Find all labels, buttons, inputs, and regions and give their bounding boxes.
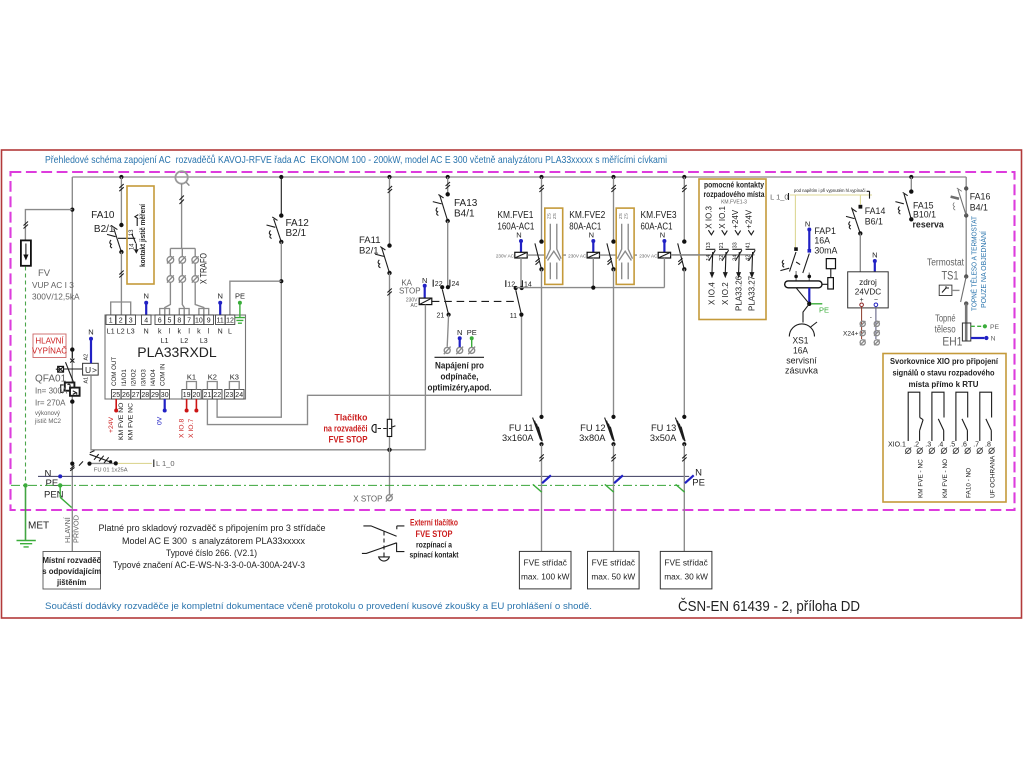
svg-text:PE: PE [46, 478, 59, 489]
svg-text:Typové značení AC-E-WS-N-3-3-0: Typové značení AC-E-WS-N-3-3-0-0A-300A-2… [113, 560, 305, 571]
svg-text:Přehledové schéma zapojení AC: Přehledové schéma zapojení AC rozvaděčů … [45, 154, 667, 166]
CT column L3 [195, 248, 204, 315]
svg-text:33: 33 [732, 242, 738, 248]
svg-text:1: 1 [109, 318, 113, 325]
svg-text:B2/1: B2/1 [94, 224, 115, 235]
svg-text:25: 25 [112, 392, 120, 399]
svg-text:Místní rozvaděč: Místní rozvaděč [42, 556, 101, 565]
breaker FA15 [895, 175, 944, 230]
svg-text:X IO.2: X IO.2 [721, 282, 730, 305]
svg-text:4: 4 [144, 318, 148, 325]
svg-text:COM IN: COM IN [160, 364, 167, 386]
svg-text:N: N [805, 220, 810, 229]
contactor KM.FVE1 [496, 175, 587, 417]
svg-text:X IO.4: X IO.4 [708, 282, 717, 305]
aux contact column X IO.4 [705, 205, 717, 305]
svg-text:42: 42 [746, 255, 752, 261]
svg-text:ZS: ZS [624, 213, 629, 219]
svg-text:14: 14 [129, 243, 135, 250]
svg-text:0V: 0V [157, 416, 164, 425]
svg-text:I2/IO2: I2/IO2 [131, 369, 138, 386]
svg-text:.4: .4 [937, 442, 943, 449]
svg-text:6: 6 [158, 318, 162, 325]
svg-text:XIO.1: XIO.1 [888, 442, 906, 449]
svg-text:výkonový: výkonový [35, 411, 60, 417]
svg-text:.6: .6 [961, 442, 967, 449]
wire button to X STOP terminal [389, 437, 391, 495]
svg-text:FA13: FA13 [454, 198, 478, 209]
svg-text:FA10: FA10 [91, 210, 115, 221]
svg-text:21: 21 [204, 392, 212, 399]
plug ZS box 1 [545, 208, 563, 284]
svg-text:A2: A2 [84, 354, 90, 361]
svg-text:I3/IO3: I3/IO3 [140, 369, 147, 386]
svg-text:Model AC E 300 s analyzátorem: Model AC E 300 s analyzátorem PLA33xxxxx [122, 536, 305, 547]
svg-text:PE: PE [819, 306, 829, 315]
svg-text:HLAVNÍ: HLAVNÍ [35, 337, 64, 346]
svg-text:.7: .7 [973, 442, 979, 449]
svg-text:KM.FVE2: KM.FVE2 [569, 210, 605, 221]
fuse FU13 [650, 415, 694, 552]
svg-text:K3: K3 [230, 373, 239, 382]
svg-text:VUP AC I 3: VUP AC I 3 [32, 280, 74, 290]
svg-text:230V AC: 230V AC [568, 253, 587, 258]
outer drawing frame [2, 150, 1022, 618]
svg-text:N: N [144, 329, 149, 336]
bracket K3 [229, 382, 239, 390]
svg-text:7: 7 [187, 318, 191, 325]
wire KA coil down [424, 305, 426, 450]
svg-text:s odpovídajícím: s odpovídajícím [42, 567, 101, 576]
svg-text:Topné: Topné [935, 314, 956, 325]
wire FA12 to PLA T12 [230, 281, 281, 315]
svg-text:27: 27 [132, 392, 140, 399]
svg-text:10: 10 [195, 318, 203, 325]
svg-text:2: 2 [119, 318, 123, 325]
svg-text:U: U [85, 365, 91, 375]
svg-text:k: k [158, 329, 162, 336]
node FVE stop junction [387, 448, 391, 452]
wire +24V out [115, 399, 117, 409]
XIO contact pair 1 [908, 392, 923, 441]
svg-text:24: 24 [452, 281, 460, 288]
XIO terminal circles [905, 447, 994, 453]
contactor KM.FVE3 [637, 175, 706, 417]
wire X IO.7 [195, 399, 197, 409]
svg-text:PŘÍVOD: PŘÍVOD [72, 515, 81, 543]
svg-text:N: N [88, 328, 93, 337]
svg-text:KM FVE NC: KM FVE NC [128, 403, 135, 440]
svg-text:41: 41 [746, 242, 752, 248]
svg-text:-: - [870, 314, 872, 321]
box mistni rozvadec [43, 552, 101, 590]
svg-text:Tlačítko: Tlačítko [335, 413, 368, 423]
svg-text:28: 28 [141, 392, 149, 399]
svg-text:servisní: servisní [786, 356, 817, 366]
plug ZS box 2 [616, 208, 634, 284]
svg-text:Externí tlačítko: Externí tlačítko [410, 518, 458, 528]
XIO terminal labels [888, 442, 991, 449]
svg-text:60A-AC1: 60A-AC1 [641, 222, 673, 233]
svg-text:.2: .2 [913, 442, 919, 449]
node FV branch [70, 208, 74, 212]
CT column L1 [165, 248, 171, 315]
svg-text:12: 12 [226, 318, 234, 325]
wire FA10 to PLA T2 [120, 252, 122, 315]
wire PLA T21 to KM aux [207, 314, 521, 424]
svg-text:11: 11 [217, 318, 224, 325]
svg-text:8: 8 [177, 318, 181, 325]
wire FV branch [25, 210, 72, 241]
wire KA 21 to odpinace terminal [447, 315, 448, 347]
breaker FA12 [279, 175, 283, 179]
wire trafo drop [181, 184, 183, 249]
svg-text:In= 300A: In= 300A [35, 387, 68, 396]
fuse FU12 [579, 415, 623, 552]
svg-text:20: 20 [193, 392, 201, 399]
svg-text:odpínače,: odpínače, [441, 372, 479, 382]
svg-text:L1: L1 [107, 329, 115, 336]
svg-text:34: 34 [732, 255, 738, 261]
XIO contact pair 3 [956, 392, 968, 441]
svg-text:13: 13 [706, 242, 712, 248]
svg-text:rozpadového místa: rozpadového místa [704, 189, 765, 199]
svg-text:max. 30 kW: max. 30 kW [664, 572, 708, 582]
svg-text:PE: PE [467, 328, 477, 337]
svg-text:B10/1: B10/1 [913, 210, 936, 220]
svg-text:Ir= 270A: Ir= 270A [35, 399, 66, 408]
svg-text:9: 9 [207, 318, 211, 325]
bracket K1 [187, 382, 197, 390]
svg-text:optimizéry,apod.: optimizéry,apod. [428, 383, 492, 393]
svg-text:XS1: XS1 [793, 336, 809, 346]
svg-text:POUZE NA OBJEDNÁNÍ: POUZE NA OBJEDNÁNÍ [979, 231, 988, 308]
CT column L2 [182, 248, 184, 315]
svg-text:FA10 - NO: FA10 - NO [966, 468, 973, 498]
changeover contact KA 22-24-21 [433, 280, 450, 287]
svg-text:Napájení pro: Napájení pro [435, 361, 484, 371]
svg-text:KM FVE - NO: KM FVE - NO [942, 459, 949, 498]
svg-text:21: 21 [437, 313, 445, 320]
svg-text:pod napětím i při vypnutém hl.: pod napětím i při vypnutém hl.vypínači [794, 188, 866, 193]
svg-text:K2: K2 [208, 373, 217, 382]
terminal box Svorkovnice XIO [883, 354, 1006, 503]
aux contact column PLA33.27 [744, 209, 756, 311]
svg-text:N: N [143, 292, 148, 301]
wire FA13 to KA contact [447, 221, 449, 287]
svg-text:FV: FV [38, 268, 51, 279]
overcurrent release block MC2 [65, 383, 75, 391]
svg-text:PE: PE [990, 324, 1000, 331]
svg-text:ZS: ZS [618, 213, 623, 219]
aux contact box kontakt jistic mereni [127, 186, 154, 284]
svg-text:rozpínací a: rozpínací a [416, 539, 452, 549]
svg-text:N: N [516, 231, 521, 240]
svg-text:N: N [457, 328, 462, 337]
svg-text:3: 3 [129, 318, 133, 325]
svg-text:B2/1: B2/1 [286, 228, 307, 239]
svg-text:spínací kontakt: spínací kontakt [410, 549, 459, 559]
svg-text:ZS: ZS [546, 213, 551, 219]
svg-text:MET: MET [28, 521, 49, 532]
aux contact KM.FVE1 12-14-11 [506, 280, 523, 287]
svg-text:230V AC: 230V AC [639, 253, 658, 258]
svg-text:29: 29 [151, 392, 159, 399]
aux link FA10 [118, 237, 135, 239]
svg-text:3x80A: 3x80A [579, 433, 606, 443]
svg-text:B2/1: B2/1 [359, 246, 379, 257]
svg-text:.3: .3 [925, 442, 931, 449]
svg-text:KM.FVE1-3: KM.FVE1-3 [721, 199, 747, 205]
top terminal designations [107, 329, 232, 346]
svg-text:FVE STOP: FVE STOP [416, 529, 453, 539]
svg-text:FA11: FA11 [359, 235, 380, 246]
svg-text:26: 26 [122, 392, 130, 399]
svg-text:Platné pro skladový rozvaděč s: Platné pro skladový rozvaděč s připojení… [99, 523, 326, 534]
bracket terminals 1-3 [111, 302, 131, 315]
svg-text:Součástí dodávky rozvaděče je: Součástí dodávky rozvaděče je kompletní … [45, 601, 592, 612]
svg-text:5: 5 [168, 318, 172, 325]
svg-text:COM OUT: COM OUT [111, 357, 118, 386]
wire FV earth dashed [25, 267, 27, 486]
svg-text:L3: L3 [127, 329, 135, 336]
svg-text:KM.FVE1: KM.FVE1 [497, 210, 533, 221]
svg-text:+24V: +24V [108, 416, 115, 433]
svg-text:k: k [197, 329, 201, 336]
aux contact column X IO.2 [718, 205, 730, 305]
terminals X24 [843, 307, 880, 346]
wire 0V out [164, 399, 166, 409]
bracket CT 10-9 [199, 309, 209, 316]
svg-text:.5: .5 [949, 442, 955, 449]
contactor KM.FVE2 [566, 175, 658, 417]
svg-text:19: 19 [183, 392, 191, 399]
svg-text:ZS: ZS [552, 213, 557, 219]
svg-text:ČSN-EN 61439 - 2, příloha DD: ČSN-EN 61439 - 2, příloha DD [678, 598, 860, 615]
svg-text:L: L [228, 329, 232, 336]
svg-text:PLA33.27: PLA33.27 [748, 275, 757, 311]
svg-text:max. 50 kW: max. 50 kW [591, 572, 635, 582]
terminal X STOP [386, 495, 392, 501]
svg-text:80A-AC1: 80A-AC1 [569, 222, 601, 233]
svg-text:N: N [991, 336, 996, 343]
svg-text:L 1_0: L 1_0 [156, 459, 175, 468]
svg-text:30mA: 30mA [814, 246, 837, 256]
svg-text:L3: L3 [200, 338, 208, 345]
svg-text:pomocné kontakty: pomocné kontakty [704, 179, 764, 189]
svg-text:max. 100 kW: max. 100 kW [521, 572, 570, 582]
rotated IO designations [111, 357, 167, 386]
svg-text:16A: 16A [793, 346, 808, 356]
trip wire U to FVE STOP [91, 375, 425, 450]
wire FA12 down [217, 242, 281, 417]
svg-text:N: N [660, 231, 665, 240]
svg-text:300V/12,5kA: 300V/12,5kA [32, 292, 80, 302]
svg-text:FVE STOP: FVE STOP [329, 435, 368, 445]
svg-text:kontakt jistič měření: kontakt jistič měření [138, 203, 147, 267]
svg-text:TS1: TS1 [942, 269, 959, 283]
svg-text:k: k [178, 329, 182, 336]
svg-text:FU 11: FU 11 [509, 423, 534, 433]
svg-text:24VDC: 24VDC [855, 288, 881, 297]
svg-text:FU 13: FU 13 [651, 423, 676, 433]
svg-text:L2: L2 [117, 329, 125, 336]
svg-text:FA16: FA16 [970, 192, 991, 202]
svg-text:reserva: reserva [913, 220, 944, 230]
svg-text:+24V: +24V [744, 209, 753, 229]
bracket K2 [207, 382, 217, 390]
pushbutton FVE STOP [387, 419, 391, 436]
svg-text:PLA33RXDL: PLA33RXDL [137, 344, 217, 360]
fuse FU11 [502, 415, 551, 552]
svg-text:Svorkovnice XIO pro připojení: Svorkovnice XIO pro připojení [890, 356, 998, 366]
svg-text:AC: AC [411, 303, 418, 309]
svg-text:zásuvka: zásuvka [785, 366, 818, 376]
cable mark FV [24, 222, 29, 229]
breaker FA11 [387, 175, 391, 179]
aux contact column PLA33.26 [731, 209, 743, 311]
svg-text:na rozvaděči: na rozvaděči [324, 424, 368, 434]
coil interconnect line [516, 287, 665, 289]
svg-text:22: 22 [719, 255, 725, 261]
XIO contact pair 2 [932, 392, 944, 441]
analyzer PLA33RXDL body [105, 315, 246, 399]
svg-text:X24+: X24+ [843, 330, 859, 337]
socket XS1 [785, 281, 829, 376]
box HLAVNI VYPINAC [33, 334, 66, 358]
breaker FA16 [951, 177, 991, 277]
box FVE stridac 2 [588, 551, 640, 589]
svg-text:PLA33.26: PLA33.26 [734, 275, 743, 311]
svg-text:TOPNÉ TĚLESO A TERMOSTAT: TOPNÉ TĚLESO A TERMOSTAT [970, 215, 979, 311]
svg-text:N: N [217, 292, 222, 301]
svg-text:B6/1: B6/1 [865, 217, 883, 227]
svg-text:N: N [589, 231, 594, 240]
fuse FU01 row [70, 462, 74, 466]
svg-text:A1: A1 [84, 377, 90, 384]
svg-text:24: 24 [235, 392, 243, 399]
bottom terminal row [112, 390, 245, 400]
svg-text:UF OCHRANA: UF OCHRANA [989, 455, 996, 498]
terminal block napajeni odpinace [444, 347, 450, 353]
main top bus L [72, 176, 966, 178]
svg-text:PE: PE [692, 477, 705, 488]
svg-text:EH1: EH1 [942, 335, 962, 349]
svg-text:KM FVE - NC: KM FVE - NC [918, 459, 925, 498]
svg-text:signálů o stavu rozpadového: signálů o stavu rozpadového [893, 368, 995, 378]
symbol externi tlacitko [363, 526, 396, 536]
svg-text:jistič MC2: jistič MC2 [34, 419, 62, 425]
svg-text:X STOP: X STOP [353, 495, 382, 504]
svg-text:X TRAFO: X TRAFO [199, 253, 209, 284]
XIO contact pair 4 [980, 392, 992, 441]
svg-text:L2: L2 [180, 338, 188, 345]
heater EH1 [935, 304, 1000, 349]
svg-text:KM FVE NO: KM FVE NO [118, 403, 125, 440]
wire FA11 to stop button [389, 273, 391, 419]
thermostat TS1 [927, 258, 968, 306]
breaker FAP1 [780, 220, 837, 290]
svg-text:místa přímo k RTU: místa přímo k RTU [909, 379, 979, 389]
svg-text:I4/IO4: I4/IO4 [150, 369, 157, 386]
svg-text:I1/IO1: I1/IO1 [121, 369, 128, 386]
breaker FA13 [446, 175, 450, 179]
breaker FA14 [846, 205, 885, 272]
svg-text:23: 23 [226, 392, 234, 399]
breaker FA10 [119, 175, 123, 179]
inner dashed boundary (rozvadec) [11, 172, 1015, 510]
svg-text:Typové číslo 266. (V2.1): Typové číslo 266. (V2.1) [166, 548, 257, 559]
svg-text:+24V: +24V [731, 209, 740, 229]
svg-text:.8: .8 [985, 442, 991, 449]
svg-text:zdroj: zdroj [859, 278, 877, 287]
svg-text:QFA01: QFA01 [35, 374, 67, 385]
breaker QFA01 main switch [70, 347, 74, 351]
svg-text:STOP: STOP [399, 287, 421, 296]
svg-text:FVE střídač: FVE střídač [524, 558, 567, 568]
mech link dashed KA to KM aux [432, 300, 516, 302]
svg-text:FAP1: FAP1 [814, 226, 836, 236]
svg-text:B4/1: B4/1 [454, 209, 475, 220]
svg-text:3x160A: 3x160A [502, 433, 534, 443]
surge arrester FV [21, 240, 31, 265]
svg-text:16A: 16A [814, 236, 830, 246]
svg-text:FU 01 1x25A: FU 01 1x25A [94, 468, 128, 474]
undervoltage release U< [83, 363, 99, 375]
bracket CT 8-7 [179, 309, 189, 316]
aux box pomocne kontakty [671, 179, 766, 320]
svg-text:K1: K1 [187, 373, 196, 382]
measuring tap circle [175, 171, 187, 183]
MET earthing [25, 485, 27, 540]
svg-text:KM.FVE3: KM.FVE3 [641, 210, 677, 221]
svg-text:22: 22 [213, 392, 221, 399]
box FVE stridac 3 [660, 551, 712, 589]
svg-text:30: 30 [161, 392, 169, 399]
svg-text:X IO.8: X IO.8 [178, 419, 185, 438]
svg-text:FU 12: FU 12 [580, 423, 605, 433]
power supply zdroj 24VDC [848, 251, 889, 308]
svg-text:3x50A: 3x50A [650, 433, 677, 443]
svg-text:FVE střídač: FVE střídač [592, 558, 635, 568]
wire X IO.8 [186, 399, 188, 409]
svg-text:B4/1: B4/1 [970, 203, 988, 213]
svg-text:X IO.3: X IO.3 [705, 205, 714, 228]
svg-text:FVE střídač: FVE střídač [664, 558, 707, 568]
svg-text:N: N [218, 329, 223, 336]
box FVE stridac 1 [519, 551, 571, 589]
svg-text:PE: PE [235, 292, 245, 301]
svg-text:11: 11 [510, 313, 517, 320]
svg-text:L1: L1 [161, 338, 169, 345]
svg-text:FA14: FA14 [865, 206, 886, 216]
svg-text:L 1_0: L 1_0 [770, 193, 789, 202]
svg-text:VYPÍNAČ: VYPÍNAČ [32, 347, 67, 356]
svg-text:X IO.1: X IO.1 [718, 205, 727, 228]
svg-text:21: 21 [719, 242, 725, 248]
svg-text:230V AC: 230V AC [496, 253, 515, 258]
svg-text:>: > [92, 365, 97, 375]
svg-text:X IO.7: X IO.7 [188, 419, 195, 438]
svg-text:N: N [872, 251, 877, 260]
svg-text:Termostat: Termostat [927, 258, 964, 269]
top terminal row [106, 315, 235, 325]
bracket CT 6-5 [160, 309, 170, 316]
svg-text:14: 14 [706, 255, 712, 261]
wire QFA feeder drop [71, 177, 73, 551]
svg-text:jištěním: jištěním [56, 578, 87, 587]
CT header [170, 247, 195, 249]
